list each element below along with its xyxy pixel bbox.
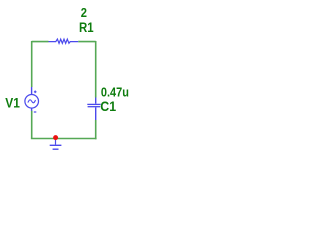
svg-text:0.47u: 0.47u [101,85,129,100]
svg-text:2: 2 [81,5,87,20]
value label 0.47u (C1) [101,85,129,100]
source V1 [25,87,39,112]
svg-text:R1: R1 [79,20,94,35]
svg-text:C1: C1 [100,99,116,114]
capacitor C1 [87,98,100,121]
resistor R1 [49,39,79,43]
node junction dot [53,135,58,140]
wire top-left segment [32,41,49,43]
wire bottom segment [31,138,97,140]
wire right upper segment [95,41,97,98]
label V1 [5,95,20,110]
label C1 [100,99,116,114]
wire left upper segment [31,41,33,87]
label R1 [79,20,94,35]
wire right lower segment [95,120,97,139]
svg-text:V1: V1 [5,95,20,110]
value label 2 (R1) [81,5,87,20]
ground [50,139,62,150]
wire top-right segment [78,41,96,43]
wire left lower segment [31,111,33,139]
